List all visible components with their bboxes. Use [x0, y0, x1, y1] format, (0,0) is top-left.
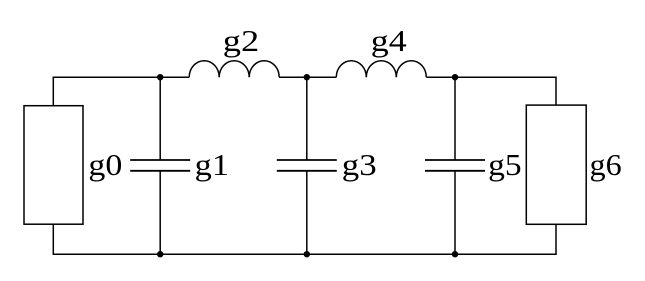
node bottom-1: [157, 251, 163, 257]
inductor g2: [189, 61, 279, 78]
node bottom-3: [452, 251, 458, 257]
svg-text:g5: g5: [488, 147, 522, 182]
resistor g6: [526, 105, 586, 224]
svg-text:g2: g2: [223, 23, 259, 58]
node bottom-2: [304, 251, 310, 257]
wire bottom rail: [53, 224, 556, 254]
wire top-left segment: [53, 77, 189, 106]
node top-3: [452, 74, 458, 80]
svg-text:g3: g3: [342, 147, 377, 182]
svg-text:g6: g6: [590, 147, 622, 182]
svg-text:g0: g0: [88, 147, 122, 182]
capacitor g5: [425, 160, 485, 171]
svg-text:g4: g4: [371, 23, 407, 58]
wire top-middle segment: [279, 76, 336, 78]
wire capacitor g1 top lead: [159, 77, 161, 160]
wire capacitor g3 top lead: [306, 77, 308, 160]
svg-text:g1: g1: [195, 147, 229, 182]
wire capacitor g5 bottom lead: [454, 171, 456, 254]
wire capacitor g5 top lead: [454, 77, 456, 160]
node top-2: [304, 74, 310, 80]
capacitor g3: [277, 160, 337, 171]
node top-1: [157, 74, 163, 80]
resistor g0: [24, 106, 83, 225]
wire capacitor g1 bottom lead: [159, 171, 161, 254]
wire capacitor g3 bottom lead: [306, 171, 308, 254]
wire top-right segment: [426, 77, 556, 105]
capacitor g1: [130, 160, 190, 171]
inductor g4: [336, 61, 426, 78]
